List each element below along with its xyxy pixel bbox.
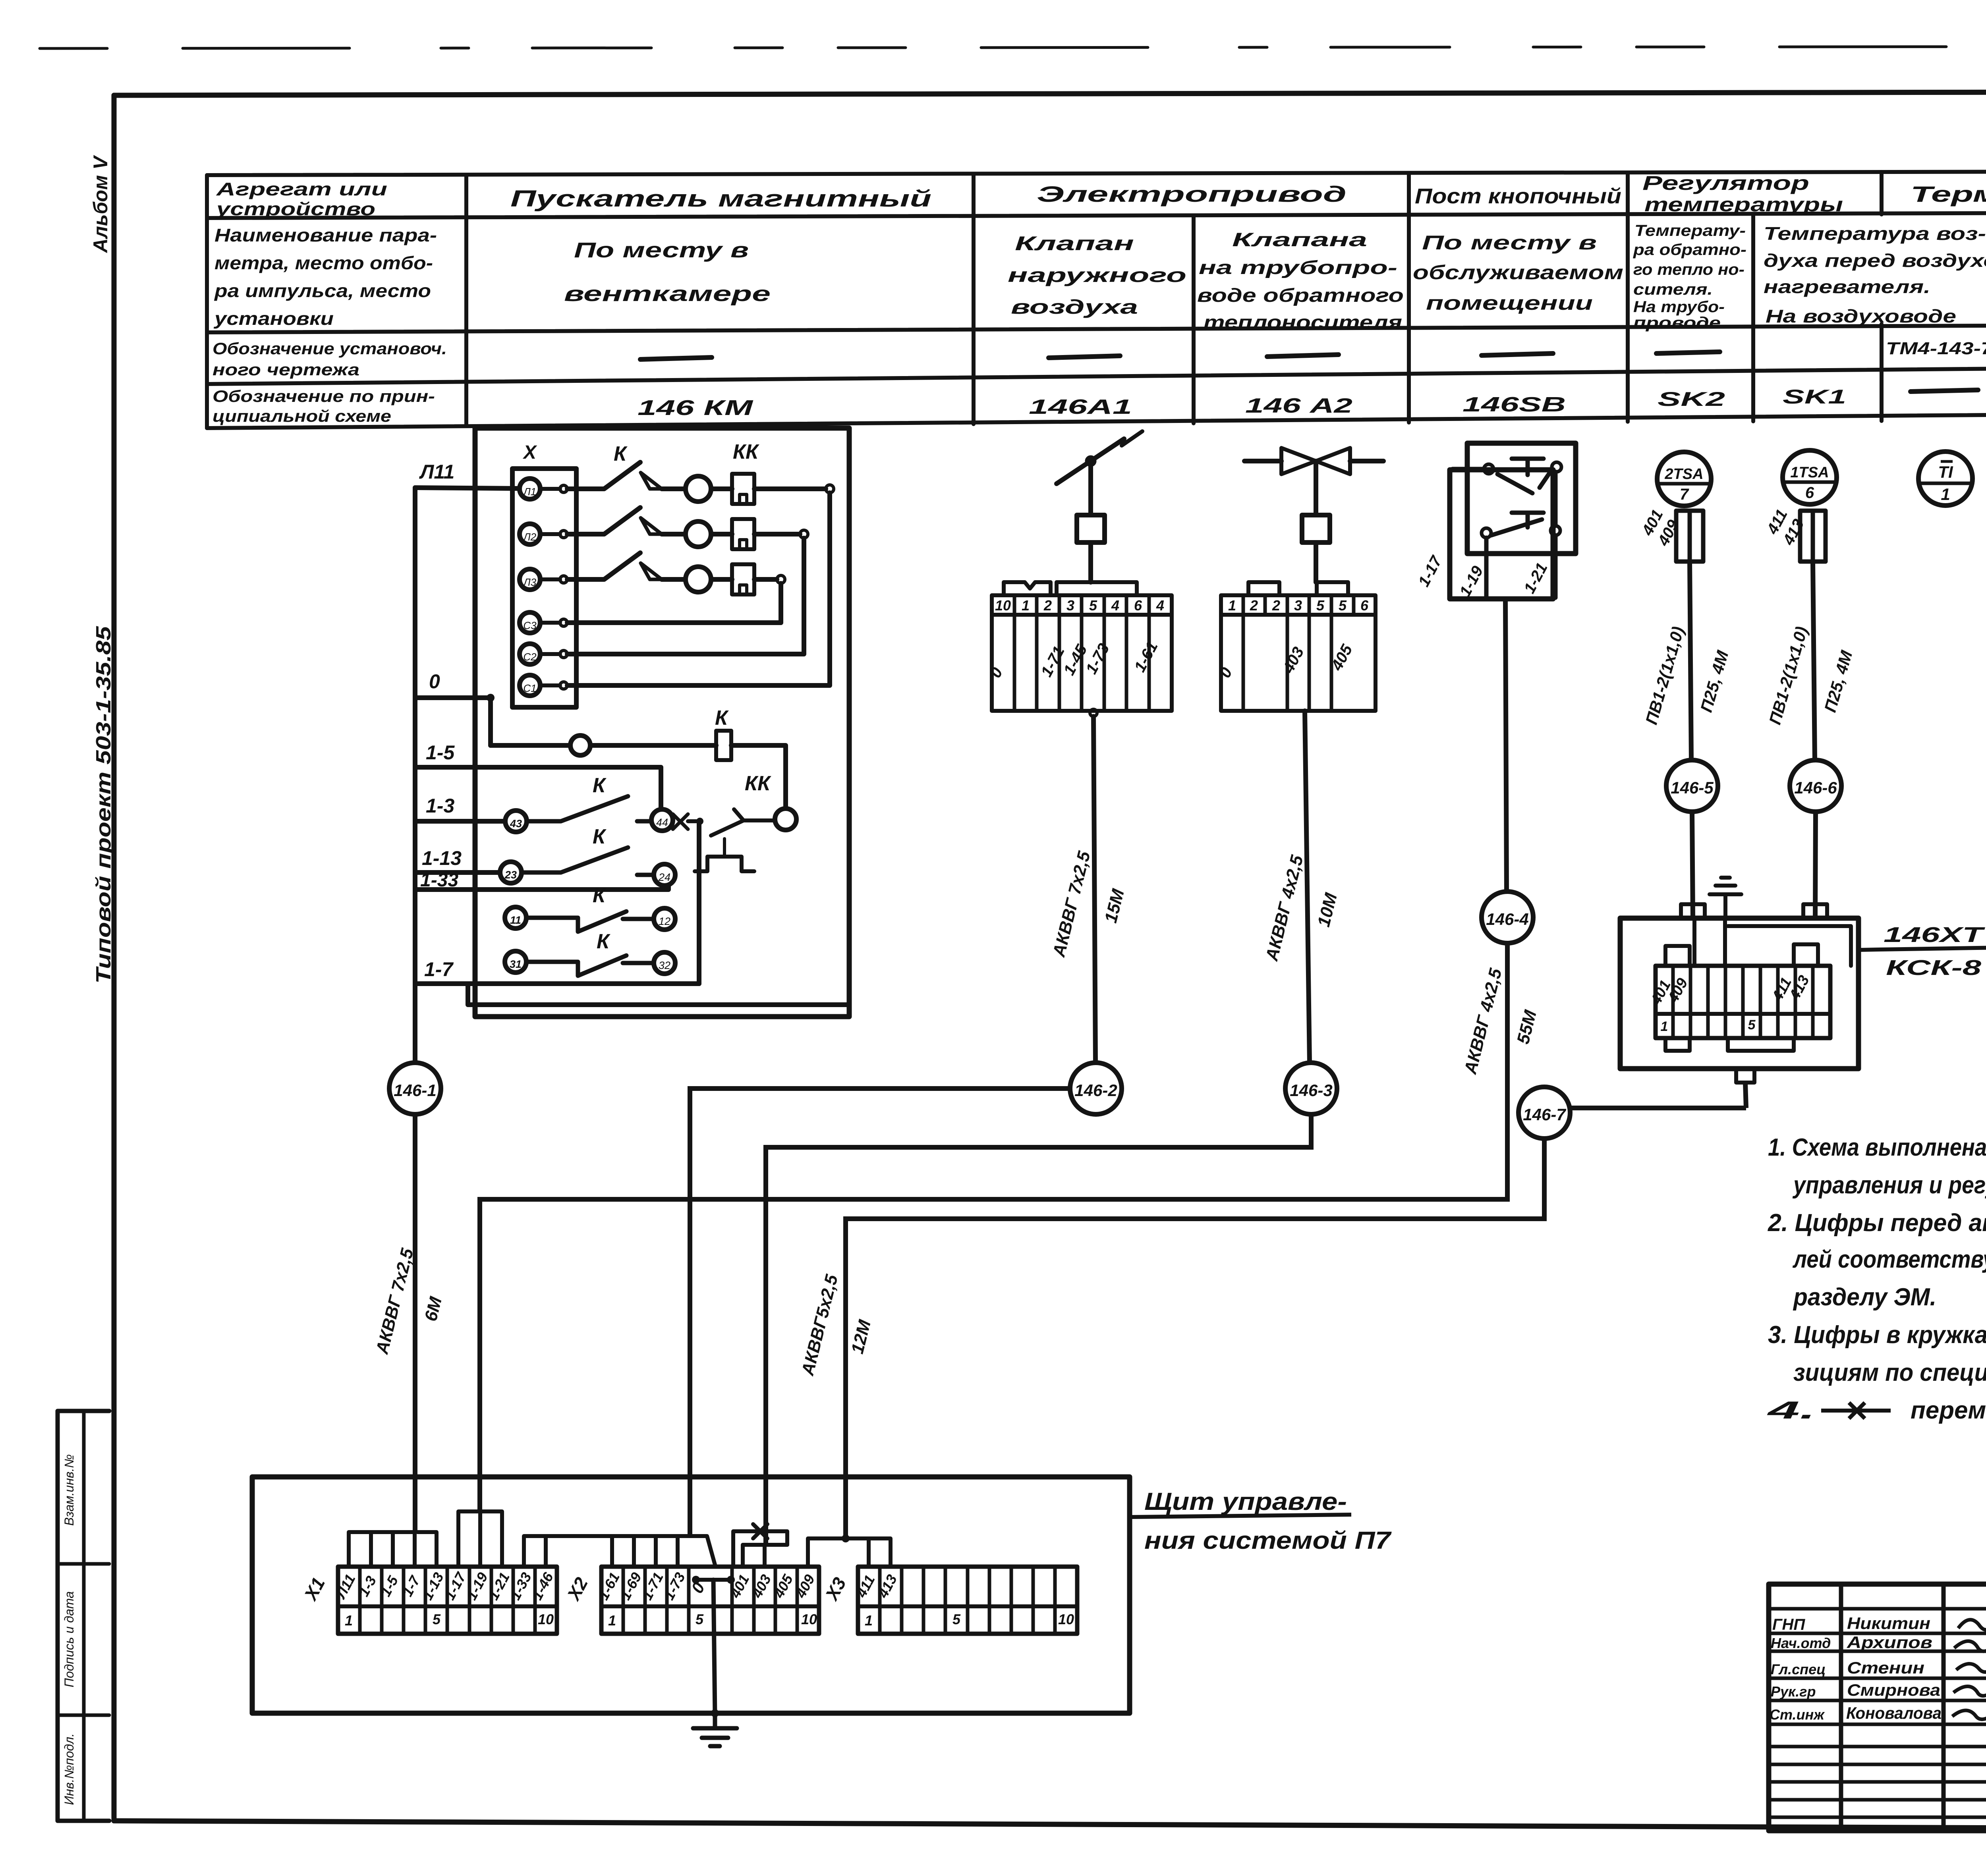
phase B wire and K main contact <box>567 508 640 534</box>
svg-text:Архипов: Архипов <box>1847 1633 1932 1652</box>
svg-text:146-3: 146-3 <box>1290 1081 1332 1100</box>
signature squiggles <box>1952 1619 1986 1719</box>
KSK-8 strip top bumps <box>1665 944 1818 966</box>
svg-text:4: 4 <box>1111 597 1119 614</box>
svg-text:6: 6 <box>1134 597 1142 614</box>
cabinet enclosure <box>252 1477 1130 1713</box>
svg-text:Нач.отд: Нач.отд <box>1771 1635 1831 1651</box>
svg-text:Наименование пара-: Наименование пара- <box>214 225 437 245</box>
terminal 43 <box>505 811 527 832</box>
stem to terminal block <box>1088 542 1093 582</box>
svg-text:10: 10 <box>1058 1611 1074 1627</box>
svg-text:1-13: 1-13 <box>422 847 462 869</box>
svg-text:10: 10 <box>801 1611 817 1627</box>
valve body left triangle <box>1281 448 1316 474</box>
svg-text:1: 1 <box>1022 597 1030 614</box>
terminal strip X3 <box>858 1567 1077 1634</box>
svg-text:лей соответствуют номеру элект: лей соответствуют номеру электропривода … <box>1792 1246 1986 1273</box>
terminal 12 <box>654 908 675 930</box>
circle 146-3 <box>1285 1063 1337 1114</box>
svg-text:5: 5 <box>695 1611 704 1627</box>
svg-text:ципиальной схеме: ципиальной схеме <box>213 407 391 425</box>
svg-text:сителя.: сителя. <box>1633 281 1713 298</box>
svg-text:1: 1 <box>865 1612 873 1629</box>
bus from cable 146-7 over X2/X3 <box>808 1538 891 1567</box>
svg-text:на трубопро-: на трубопро- <box>1199 257 1397 278</box>
svg-text:146 КМ: 146 КМ <box>638 396 753 420</box>
svg-text:ного чертежа: ного чертежа <box>213 360 359 379</box>
svg-text:Термометр технический: Термометр технический <box>1911 181 1986 207</box>
svg-text:Л1: Л1 <box>523 486 536 498</box>
svg-text:ра обратно-: ра обратно- <box>1633 241 1746 259</box>
svg-text:По месту в: По месту в <box>574 238 749 262</box>
bus from cable 146-4 over X1 <box>458 1511 502 1567</box>
terminal L1 <box>520 479 540 499</box>
svg-text:проводе: проводе <box>1633 314 1721 332</box>
label 146XT / KSK-8 <box>1858 948 1986 950</box>
thermostat 2TSA pos.7 <box>1657 452 1711 506</box>
titleblock signers <box>1770 1614 1986 1723</box>
svg-text:6: 6 <box>1360 597 1369 614</box>
phase B thermal element KK <box>711 532 732 537</box>
svg-text:зициям по спецификации оборудо: зициям по спецификации оборудования СО. <box>1793 1359 1986 1386</box>
bus from cable 146-1 over X1 <box>349 1532 437 1567</box>
svg-text:Коновалова: Коновалова <box>1846 1704 1942 1722</box>
svg-text:2: 2 <box>1272 597 1280 614</box>
svg-text:146-1: 146-1 <box>394 1081 436 1100</box>
svg-text:1: 1 <box>345 1612 353 1629</box>
svg-text:К: К <box>593 774 607 797</box>
svg-text:ния системой П7: ния системой П7 <box>1144 1527 1392 1554</box>
phase C circle element <box>662 577 686 582</box>
terminal strip X of starter <box>512 469 576 707</box>
svg-text:Щит управле-: Щит управле- <box>1144 1488 1347 1515</box>
wire L11 from cable to terminal L1 <box>415 488 520 488</box>
wire 1TSA box to 146-6 <box>1813 562 1815 760</box>
button post 146SB <box>1450 443 1576 892</box>
jumper cross mark (remove link) <box>673 814 688 829</box>
terminal block A1 top bumps <box>1004 582 1051 595</box>
parameters table <box>207 171 1986 428</box>
terminal 44 <box>651 809 673 831</box>
svg-text:1. Схема выполнена на основани: 1. Схема выполнена на основании схем фун… <box>1768 1134 1986 1161</box>
svg-text:X: X <box>522 442 537 463</box>
svg-text:обслуживаемом: обслуживаемом <box>1413 261 1623 284</box>
damper pivot <box>1087 457 1095 465</box>
wire 1-5 to terminal 44 <box>415 767 661 809</box>
table horizontal: under installation-drawing row <box>207 364 1986 384</box>
svg-text:146-5: 146-5 <box>1671 778 1714 797</box>
valve actuator box <box>1302 515 1330 542</box>
svg-text:SK2: SK2 <box>1658 388 1725 410</box>
wire 146-7 to cabinet <box>846 1139 1544 1538</box>
title block horizontal dividers: signature rows <box>1769 1609 1986 1817</box>
table horizontal: under header row <box>207 212 1986 218</box>
junction box 146XT KSK-8 <box>1620 878 1858 1083</box>
svg-text:146-2: 146-2 <box>1074 1081 1117 1100</box>
node at cable exit <box>1090 709 1097 716</box>
earth symbol on box <box>1710 878 1741 918</box>
removable jumper with cross <box>733 1524 787 1567</box>
svg-text:го тепло но-: го тепло но- <box>1633 261 1745 278</box>
KSK-8 box top cable bumps <box>1681 904 1827 918</box>
svg-text:управления и регулирования ли: управления и регулирования листы 23, 24,… <box>1792 1172 1986 1199</box>
button post lower box <box>1450 470 1553 599</box>
valve actuator stem <box>1314 461 1318 515</box>
button post upper box <box>1467 443 1576 554</box>
node at cabinet bottom <box>711 1709 719 1717</box>
dash: SK2 installation <box>1656 352 1720 353</box>
starter enclosure box <box>475 428 849 1017</box>
dash in cell: starter installation drawing <box>640 357 712 359</box>
terminal block A2 top bumps <box>1248 582 1348 595</box>
start button terminals <box>1482 528 1491 538</box>
phase C release triangle <box>641 563 662 579</box>
cable riser (AKVVG 7x2.5 6m) <box>413 488 417 1063</box>
svg-text:32: 32 <box>659 959 670 971</box>
stop button contact blade <box>1497 470 1551 493</box>
svg-text:Альбом V: Альбом V <box>89 155 112 253</box>
svg-text:К: К <box>614 442 628 465</box>
cable exit stem <box>1505 599 1507 892</box>
svg-text:146А1: 146А1 <box>1029 396 1132 419</box>
svg-text:146-4: 146-4 <box>1486 910 1528 928</box>
wire to stop button <box>1453 467 1484 471</box>
X1 terminal tags <box>332 1569 1074 1629</box>
cabinet name label <box>1132 1515 1351 1517</box>
svg-text:Обозначение по прин-: Обозначение по прин- <box>213 387 435 405</box>
terminal C2 <box>520 644 540 664</box>
svg-text:На воздуховоде: На воздуховоде <box>1766 306 1956 326</box>
svg-text:метра, место отбо-: метра, место отбо- <box>214 253 433 273</box>
svg-text:5: 5 <box>952 1611 961 1627</box>
damper blade <box>1057 439 1124 484</box>
terminal 24 <box>654 864 675 886</box>
svg-text:146-6: 146-6 <box>1794 778 1837 797</box>
svg-text:Гл.спец: Гл.спец <box>1771 1661 1826 1677</box>
terminal pin stubs and pins <box>540 489 560 685</box>
KSK-8 cover channel <box>1694 918 1851 966</box>
svg-text:К: К <box>593 884 607 907</box>
circle 146-6 <box>1790 760 1841 812</box>
bus from cable 146-2 over X1/X2 <box>524 1536 715 1567</box>
wire 1-13 row <box>415 870 500 875</box>
terminal C1 <box>520 675 540 696</box>
table vertical lines <box>205 175 209 428</box>
svg-text:5: 5 <box>433 1611 441 1627</box>
A1 terminal numbers <box>995 597 1164 614</box>
phase B circle element <box>662 532 686 537</box>
wire 1-33 row to terminal 24 <box>415 886 668 890</box>
control cabinet (Shchit upravleniya) <box>252 1477 1130 1746</box>
earth symbol <box>693 1715 737 1746</box>
svg-text:венткамере: венткамере <box>564 282 771 306</box>
bus from cable 146-3 over X2 <box>743 1545 787 1567</box>
svg-text:С3: С3 <box>523 620 537 631</box>
svg-text:ТМ4-143-75: ТМ4-143-75 <box>1886 339 1986 358</box>
svg-text:Рук.гр: Рук.гр <box>1771 1683 1816 1700</box>
wire KSK to 146-7 <box>1570 1106 1746 1110</box>
svg-text:перемычку снять.: перемычку снять. <box>1911 1397 1986 1424</box>
damper actuator stem <box>1088 465 1093 515</box>
svg-text:3. Цифры в кружках приборов со: 3. Цифры в кружках приборов соответствую… <box>1768 1321 1986 1349</box>
KSK-8 terminal strip <box>1656 966 1830 1038</box>
phase B return wire to C2 <box>754 532 800 537</box>
table horizontal: top <box>207 171 1986 175</box>
phase B release triangle <box>641 518 662 534</box>
svg-text:По месту в: По месту в <box>1422 232 1597 254</box>
wire 146-6 to KSK box <box>1815 812 1816 918</box>
valve actuator 146A2 <box>1221 448 1383 1063</box>
cable drop to 146-2 <box>1093 716 1095 1063</box>
neutral 0 wire <box>415 695 491 700</box>
wire lamp to coil K <box>590 743 716 748</box>
svg-text:К: К <box>593 825 607 848</box>
table horizontal: bottom <box>207 411 1986 428</box>
svg-text:воздуха: воздуха <box>1011 296 1138 318</box>
thermometer TI1 <box>1918 452 1972 506</box>
svg-text:Регулятор: Регулятор <box>1642 172 1809 194</box>
svg-text:5: 5 <box>1316 597 1325 614</box>
svg-text:3: 3 <box>1294 597 1302 614</box>
svg-text:1TSA: 1TSA <box>1790 464 1829 481</box>
cable drop to 146-3 <box>1305 711 1310 1063</box>
svg-text:Стенин: Стенин <box>1847 1658 1924 1677</box>
terminal 31 <box>505 951 526 973</box>
terminal 32 <box>654 952 675 974</box>
svg-text:С2: С2 <box>523 651 537 663</box>
phase A thermal element KK <box>711 486 732 491</box>
svg-text:146ХТ: 146ХТ <box>1884 923 1985 947</box>
frame top border <box>114 91 1986 95</box>
svg-text:КК: КК <box>733 440 759 463</box>
wire 0 drop to coil row <box>488 698 493 745</box>
svg-text:Никитин: Никитин <box>1847 1614 1930 1633</box>
dash: thermometer scheme designations row <box>1911 384 1986 392</box>
svg-text:0: 0 <box>429 670 440 693</box>
K auxiliary contact (1-3 row) <box>527 796 651 821</box>
damper actuator 146A1 <box>992 431 1172 1063</box>
KSK-8 enclosure <box>1620 918 1858 1069</box>
svg-text:1-5: 1-5 <box>426 741 455 764</box>
dash: damper drive installation <box>1049 356 1120 358</box>
svg-text:1: 1 <box>1661 1019 1668 1034</box>
KK trip circle <box>775 809 796 830</box>
signal lamp <box>570 735 590 755</box>
damper actuator box <box>1077 515 1105 542</box>
bottom-left stamp column box <box>58 1411 109 1821</box>
phase A circle element <box>662 486 686 491</box>
svg-text:На трубо-: На трубо- <box>1633 298 1725 316</box>
svg-text:12: 12 <box>659 915 670 927</box>
svg-text:Клапан: Клапан <box>1015 232 1134 255</box>
table horizontal: under sub-header row <box>207 324 1986 332</box>
node on 146-7 bus <box>842 1534 850 1542</box>
stem to terminal block <box>1314 542 1318 582</box>
svg-text:2. Цифры перед аппаратурой и м: 2. Цифры перед аппаратурой и маркировкой… <box>1768 1209 1986 1237</box>
earth drop wire <box>713 1580 715 1715</box>
terminal L3 <box>520 569 540 590</box>
svg-text:146-7: 146-7 <box>1523 1105 1566 1124</box>
svg-text:2: 2 <box>1250 597 1258 614</box>
svg-text:С1: С1 <box>523 682 536 694</box>
title block <box>1769 1584 1986 1831</box>
dash: button post installation <box>1482 353 1553 355</box>
svg-text:4: 4 <box>1156 597 1164 614</box>
KK manual reset symbol <box>695 857 754 871</box>
terminal C3 <box>520 612 540 633</box>
svg-text:5: 5 <box>1089 597 1097 614</box>
svg-text:2: 2 <box>1043 597 1052 614</box>
valve body right triangle <box>1316 448 1350 474</box>
wire 146-2 to cabinet <box>690 1089 1070 1536</box>
svg-text:1-3: 1-3 <box>426 795 454 817</box>
frame left border <box>112 95 117 1821</box>
svg-text:Л2: Л2 <box>523 531 537 543</box>
svg-text:24: 24 <box>658 871 670 883</box>
wire 1-7 row <box>415 981 699 986</box>
wire coil to KK circle <box>731 745 786 809</box>
svg-text:Температура воз-: Температура воз- <box>1764 223 1986 244</box>
thermostat 1TSA pos.6 <box>1783 450 1837 504</box>
wire 146-4 to cabinet <box>480 943 1507 1511</box>
svg-text:Подпись и дата: Подпись и дата <box>62 1591 76 1687</box>
svg-text:4.: 4. <box>1766 1397 1816 1424</box>
circle 146-2 <box>1070 1063 1122 1114</box>
svg-text:44: 44 <box>656 816 668 828</box>
svg-text:10: 10 <box>995 597 1011 614</box>
phase A return wire to C1 <box>754 486 826 491</box>
svg-text:6: 6 <box>1805 484 1814 502</box>
wire 1-3 row <box>415 819 505 824</box>
svg-text:10: 10 <box>538 1611 554 1627</box>
svg-text:Обозначение установоч.: Обозначение установоч. <box>213 339 447 358</box>
magnetic starter unit <box>415 428 849 1063</box>
svg-text:3: 3 <box>1066 597 1074 614</box>
terminal block A2 core cells <box>1221 615 1376 711</box>
svg-text:духа перед воздухо: духа перед воздухо <box>1764 250 1986 271</box>
table header texts <box>213 172 1986 425</box>
damper blade tick <box>1122 431 1142 446</box>
svg-text:Смирнова: Смирнова <box>1847 1681 1940 1699</box>
svg-text:43: 43 <box>510 818 522 830</box>
terminal block A1 core cells <box>992 615 1172 711</box>
node: 0 junction <box>487 694 495 702</box>
svg-text:Пускатель магнитный: Пускатель магнитный <box>510 186 931 212</box>
terminal 23 <box>500 862 522 883</box>
phase A release triangle <box>641 473 662 489</box>
svg-text:11: 11 <box>510 914 521 926</box>
svg-text:Взам.инв.№: Взам.инв.№ <box>62 1454 76 1526</box>
dash: valve drive installation <box>1267 355 1339 357</box>
svg-text:воде обратного: воде обратного <box>1197 285 1404 306</box>
svg-text:2TSA: 2TSA <box>1664 466 1703 483</box>
frame bottom border <box>114 1821 1986 1830</box>
svg-text:КСК-8: КСК-8 <box>1886 956 1981 980</box>
svg-text:Электропривод: Электропривод <box>1037 181 1347 207</box>
2TSA terminal pair box <box>1676 511 1703 562</box>
svg-text:TI: TI <box>1938 463 1953 481</box>
circle 146-4 <box>1482 892 1533 943</box>
svg-text:нагревателя.: нагревателя. <box>1764 276 1930 297</box>
wire 2TSA box to 146-5 <box>1690 562 1691 760</box>
circle 146-7 <box>1518 1087 1570 1139</box>
svg-text:теплоносителя: теплоносителя <box>1204 312 1402 333</box>
svg-text:1: 1 <box>1941 485 1950 504</box>
svg-text:разделу ЭМ.: разделу ЭМ. <box>1793 1283 1936 1311</box>
svg-text:31: 31 <box>510 958 522 970</box>
svg-text:установки: установки <box>214 308 334 329</box>
svg-text:Температу-: Температу- <box>1634 222 1746 239</box>
K auxiliary NC contact (11-12) <box>526 911 654 932</box>
phase C thermal element KK <box>711 577 732 582</box>
svg-text:КК: КК <box>745 772 771 795</box>
circle 146-1 <box>389 1063 441 1114</box>
terminal L2 <box>520 524 540 544</box>
return wire along bottom of box <box>468 984 849 1005</box>
svg-text:устройство: устройство <box>215 199 375 219</box>
phase A wire and K main contact <box>567 462 640 489</box>
stop button terminals <box>1484 464 1493 474</box>
wire KSK gland down <box>1745 1083 1746 1108</box>
svg-text:Л3: Л3 <box>523 576 537 588</box>
neutral bar in X2 zero cell <box>696 1578 731 1582</box>
KSK-8 strip bottom bumps <box>1665 1038 1794 1051</box>
svg-text:Л11: Л11 <box>419 461 454 483</box>
terminal block A2 numbers row <box>1221 595 1376 615</box>
svg-text:Пост кнопочный: Пост кнопочный <box>1415 184 1621 208</box>
wire from jumper node down to 1-7 <box>697 823 701 984</box>
svg-text:Ст.инж: Ст.инж <box>1770 1706 1825 1723</box>
svg-text:1-7: 1-7 <box>424 958 454 980</box>
stop button plunger <box>1512 459 1544 475</box>
svg-text:7: 7 <box>1680 486 1689 503</box>
K auxiliary contact (1-13 row) <box>522 847 654 875</box>
phase C wire and K main contact <box>567 553 640 579</box>
KK break contact <box>711 809 775 836</box>
note 4 jumper symbol <box>1821 1403 1891 1419</box>
svg-text:К: К <box>715 706 729 730</box>
svg-text:Клапана: Клапана <box>1232 230 1367 251</box>
starter labels <box>419 440 771 980</box>
svg-text:1: 1 <box>1228 597 1236 614</box>
terminal 11 <box>505 907 526 928</box>
svg-text:23: 23 <box>504 869 517 881</box>
wire 146-5 to KSK box <box>1692 812 1693 918</box>
svg-text:температуры: температуры <box>1644 193 1843 216</box>
svg-text:146SB: 146SB <box>1462 393 1566 416</box>
svg-text:наружного: наружного <box>1008 264 1186 286</box>
svg-text:1: 1 <box>608 1612 616 1629</box>
svg-text:5: 5 <box>1748 1017 1756 1033</box>
1TSA terminal pair box <box>1800 511 1826 562</box>
wire 146-3 to cabinet <box>766 1114 1311 1545</box>
svg-text:1-33: 1-33 <box>420 870 458 891</box>
svg-text:Агрегат или: Агрегат или <box>216 179 387 199</box>
terminal strip X1 <box>338 1567 557 1634</box>
svg-text:SK1: SK1 <box>1783 386 1846 408</box>
notes <box>1766 1134 1986 1424</box>
svg-text:помещении: помещении <box>1426 292 1593 314</box>
node after jumper <box>696 818 703 825</box>
valve pipe lines <box>1244 459 1383 463</box>
wire 146-1 down to cabinet <box>413 1114 417 1532</box>
svg-text:К: К <box>597 930 610 953</box>
svg-text:5: 5 <box>1339 597 1347 614</box>
terminal strip X2 <box>601 1567 819 1634</box>
phase C return wire to C3 <box>754 577 777 582</box>
svg-text:Типовой проект 503-1-35.85: Типовой проект 503-1-35.85 <box>92 626 115 984</box>
